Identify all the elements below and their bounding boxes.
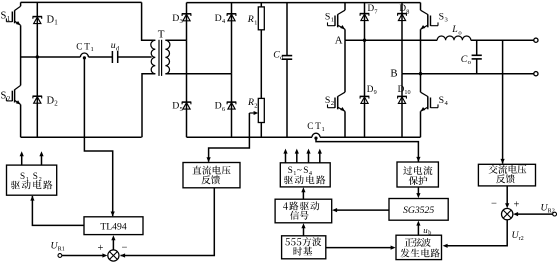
svg-text:S: S: [20, 171, 25, 181]
node B wire: [402, 73, 534, 75]
transformer T primary top lead: [142, 2, 156, 40]
wire: secondary top to rectifier left leg: [165, 39, 186, 41]
svg-text:T: T: [84, 41, 90, 51]
svg-text:~: ~: [297, 166, 302, 176]
svg-text:10: 10: [404, 89, 410, 96]
label R1: [247, 14, 258, 26]
label S1 (inverter): [325, 11, 334, 23]
node: dot A / D7 leg: [363, 39, 366, 42]
block: TL494: [84, 217, 143, 235]
svg-text:−: −: [491, 199, 497, 210]
transformer T core: [159, 40, 162, 76]
transformer T secondary winding: [165, 40, 170, 74]
svg-text:2: 2: [254, 102, 257, 109]
svg-text:1: 1: [322, 126, 325, 133]
svg-text:D: D: [172, 13, 179, 24]
svg-text:A: A: [335, 34, 343, 46]
block: 4-way drive signal: [275, 199, 332, 223]
label D2: [47, 95, 59, 107]
wire: DC feedback block to summer: [120, 188, 214, 258]
resistor R1: [258, 3, 264, 99]
label D7: [368, 3, 378, 15]
node A wire: [345, 39, 437, 41]
label + (right summer): [514, 200, 520, 211]
svg-text:2: 2: [54, 100, 58, 108]
label D6: [215, 101, 226, 113]
svg-text:D: D: [215, 13, 222, 24]
svg-text:9: 9: [374, 89, 377, 96]
label Lo: [451, 24, 462, 36]
svg-text:1: 1: [7, 15, 11, 23]
svg-text:T: T: [158, 29, 165, 41]
label + (left summer): [98, 243, 104, 254]
block: 555 square wave timebase: [282, 236, 326, 259]
wire: TL494 output to S1S2 drive block: [30, 196, 84, 226]
diode D8: [397, 3, 407, 74]
capacitor Cd (DC bus): [282, 3, 292, 138]
block: S1 S2 drive circuit: [7, 165, 57, 195]
diode D4 (rectifier top-right): [227, 3, 237, 74]
label Cd: [273, 49, 284, 61]
svg-text:D: D: [172, 101, 179, 112]
diode D1 (freewheel across S1): [33, 2, 43, 57]
inductor Lo: [437, 36, 534, 40]
transistor S1 inverter (IGBT, top-left): [328, 3, 346, 41]
label D5: [172, 101, 183, 113]
label ud: [111, 40, 120, 52]
output terminal (lower): [534, 72, 538, 76]
resistor R2 (potentiometer): [258, 98, 264, 137]
summing junction (left): [108, 250, 119, 261]
svg-text:7: 7: [374, 8, 377, 15]
output terminal (upper): [534, 38, 538, 42]
label T: [158, 29, 165, 41]
diode D5 (rectifier bottom-left): [182, 40, 192, 137]
svg-text:R: R: [247, 14, 254, 25]
svg-text:+: +: [514, 200, 520, 211]
capacitor Co: [472, 40, 482, 73]
transistor S4 inverter (IGBT, bottom-right, mirrored): [421, 74, 439, 138]
block: overcurrent protection: [397, 162, 438, 187]
label D3: [172, 13, 183, 25]
label CT1 (right): [307, 121, 324, 133]
svg-text:1: 1: [54, 19, 58, 27]
svg-text:L: L: [451, 24, 457, 35]
wire: left bridge top rail: [21, 1, 142, 3]
arrows: S1~S4 drive outputs: [283, 149, 322, 163]
block: sine wave generator: [396, 235, 442, 259]
wire: AC feedback block to right summer: [505, 186, 509, 208]
input terminal UR1: [58, 253, 107, 257]
svg-text:+: +: [98, 243, 104, 254]
wire: CT1 left secondary to TL494: [84, 59, 114, 217]
diode D10: [397, 74, 407, 138]
label D10: [398, 84, 411, 96]
label S2: [1, 91, 11, 103]
label Ur2: [512, 230, 524, 242]
arrows: S1 S2 drive outputs: [20, 151, 44, 165]
svg-text:TL494: TL494: [100, 222, 127, 233]
svg-text:SG3525: SG3525: [403, 205, 434, 216]
svg-text:B: B: [390, 68, 397, 80]
svg-text:8: 8: [406, 8, 409, 15]
current transformer CT1 (left) hop on mid rail: [80, 53, 88, 60]
svg-text:D: D: [215, 101, 222, 112]
wire: left bridge mid rail (switch midpoint): [21, 56, 152, 58]
wire: left bridge bottom rail: [21, 136, 142, 138]
svg-text:S: S: [1, 91, 7, 102]
svg-text:T: T: [315, 121, 321, 131]
svg-text:C: C: [307, 121, 313, 131]
wire: 555 block to 4-way drive block: [301, 223, 305, 236]
diode D2 (freewheel across S2): [33, 57, 43, 137]
label R2: [247, 97, 258, 109]
wire: AC feedback tap down to block: [501, 40, 505, 164]
wire: right summer output to sine generator: [443, 220, 508, 248]
capacitor ud (DC blocking): [112, 51, 117, 63]
transistor S2 (IGBT, bottom-left): [6, 57, 20, 137]
diode D6 (rectifier bottom-right): [227, 74, 237, 138]
transistor S3 inverter (IGBT, top-right, mirrored): [421, 3, 439, 74]
svg-text:1: 1: [254, 19, 257, 26]
transformer T primary bottom lead: [142, 74, 155, 138]
svg-text:R1: R1: [58, 246, 65, 253]
block: DC voltage feedback: [183, 163, 240, 188]
current transformer CT1 (right) hop on bottom rail: [312, 133, 320, 140]
wire: sine generator to SG3525 (ub): [416, 221, 420, 235]
label S2 (inverter): [325, 95, 334, 107]
label D1: [47, 14, 59, 26]
svg-text:S: S: [1, 11, 7, 22]
wire: SG3525 to 4-way drive block: [332, 208, 389, 212]
label A: [335, 34, 343, 46]
R2 wiper arrow: [249, 111, 258, 115]
svg-text:S: S: [325, 95, 330, 106]
diode D9: [360, 40, 370, 137]
block: S1~S4 drive circuit: [280, 163, 330, 187]
svg-text:R2: R2: [548, 207, 555, 214]
wire: DC top rail (rectifier + inverter): [187, 2, 421, 4]
svg-text:1: 1: [331, 17, 334, 24]
block: AC voltage feedback: [478, 164, 535, 186]
wire: secondary bottom to rectifier right leg: [165, 73, 231, 75]
svg-text:S: S: [288, 166, 293, 176]
wire: DC bottom rail (rectifier + inverter): [187, 136, 421, 138]
label - (right summer): [491, 199, 497, 210]
svg-text:1: 1: [91, 46, 94, 53]
node: dot B / S5-S6 leg: [419, 72, 422, 75]
wire: 555 to sine generator: [326, 246, 396, 250]
svg-text:S: S: [303, 166, 308, 176]
svg-text:2: 2: [331, 100, 334, 107]
svg-text:C: C: [76, 41, 82, 51]
svg-text:r2: r2: [519, 235, 524, 242]
wire: R2 wiper to DC feedback block: [207, 113, 250, 162]
label D9: [367, 84, 377, 96]
summing junction (right): [502, 208, 513, 219]
label D4: [215, 13, 226, 25]
wire: 4-way drive to S3~S6 block: [301, 187, 305, 199]
svg-text:R: R: [247, 97, 254, 108]
transistor S2 inverter (IGBT, bottom-left): [328, 40, 346, 137]
svg-text:S: S: [325, 11, 330, 22]
input terminal UR2: [513, 212, 556, 216]
label CT1 (left): [76, 41, 93, 53]
wire: summer output up to TL494: [111, 235, 115, 250]
svg-text:2: 2: [7, 95, 11, 103]
wire: CT1 right secondary to overcurrent block: [316, 139, 421, 162]
svg-text:S: S: [439, 95, 444, 106]
label ub: [423, 225, 431, 237]
transformer T primary winding: [151, 40, 156, 74]
transistor S1 (IGBT, top-left): [6, 2, 20, 57]
block: SG3525: [389, 199, 448, 221]
svg-text:b: b: [428, 229, 431, 236]
label UR2: [541, 202, 555, 214]
label D8: [399, 3, 409, 15]
svg-text:−: −: [122, 243, 128, 254]
node: junction dot D1/D2 leg on mid rail: [36, 55, 39, 58]
label S1: [1, 11, 11, 23]
diode D3 (rectifier top-left): [182, 3, 192, 41]
label S4 (inverter): [439, 95, 449, 107]
svg-text:S: S: [439, 11, 444, 22]
label B: [390, 68, 397, 80]
svg-text:S: S: [33, 171, 38, 181]
label UR1: [51, 241, 65, 253]
label - (left summer): [122, 243, 128, 254]
label Co: [461, 54, 472, 66]
diode D7: [360, 3, 370, 41]
label S3 (inverter): [439, 11, 449, 23]
wire: overcurrent block to SG3525: [416, 187, 420, 198]
